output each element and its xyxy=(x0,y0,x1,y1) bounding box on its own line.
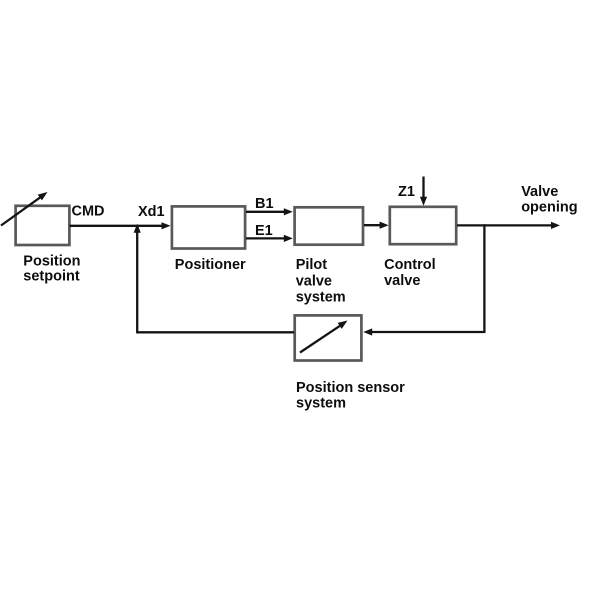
wire CMD to summing point to Positioner xyxy=(70,222,171,229)
wire B1 Positioner to Pilot valve xyxy=(246,208,293,215)
label Z1 xyxy=(398,184,415,200)
block Control valve xyxy=(390,207,456,244)
svg-text:Control: Control xyxy=(384,257,436,273)
label Positioner xyxy=(175,257,246,273)
svg-text:valve: valve xyxy=(296,273,332,289)
label Position setpoint xyxy=(23,254,80,285)
label B1 xyxy=(255,196,274,212)
svg-text:Pilot: Pilot xyxy=(296,257,328,273)
svg-text:Z1: Z1 xyxy=(398,184,415,200)
svg-text:Xd1: Xd1 xyxy=(138,204,165,220)
wire Control valve output to Valve opening xyxy=(457,222,560,229)
block Positioner U1 xyxy=(172,206,245,248)
wire E1 Positioner to Pilot valve xyxy=(246,235,293,242)
wire Pilot valve to Control valve xyxy=(364,222,389,229)
wire feedback bottom right into sensor xyxy=(363,328,485,335)
label Position sensor system xyxy=(296,380,405,411)
sensor diagonal arrow xyxy=(300,321,348,353)
block Pilot valve system xyxy=(295,207,363,244)
label E1 xyxy=(255,223,273,239)
label Control valve xyxy=(384,257,436,289)
label Valve opening xyxy=(521,184,577,215)
label Pilot valve system xyxy=(296,257,346,305)
wire Z1 input arrow into Control valve top xyxy=(420,177,427,206)
block Position sensor system xyxy=(295,315,362,360)
wire sensor output to feedback left leg xyxy=(136,331,294,333)
svg-text:system: system xyxy=(296,290,346,306)
svg-text:Position sensor: Position sensor xyxy=(296,380,405,396)
svg-text:valve: valve xyxy=(384,273,420,289)
svg-text:Position: Position xyxy=(23,254,80,270)
label Xd1 xyxy=(138,204,165,220)
svg-text:setpoint: setpoint xyxy=(23,269,80,285)
setpoint ramp arrow xyxy=(1,192,48,226)
svg-text:opening: opening xyxy=(521,199,577,215)
label CMD xyxy=(72,204,105,220)
svg-text:CMD: CMD xyxy=(72,204,105,220)
feedback up arrow into main wire xyxy=(134,224,141,332)
svg-text:Positioner: Positioner xyxy=(175,257,246,273)
svg-text:B1: B1 xyxy=(255,196,274,212)
svg-text:E1: E1 xyxy=(255,223,273,239)
svg-text:system: system xyxy=(296,395,346,411)
block Position setpoint xyxy=(16,206,70,245)
svg-text:Valve: Valve xyxy=(521,184,558,200)
wire feedback drop from output xyxy=(483,224,485,332)
